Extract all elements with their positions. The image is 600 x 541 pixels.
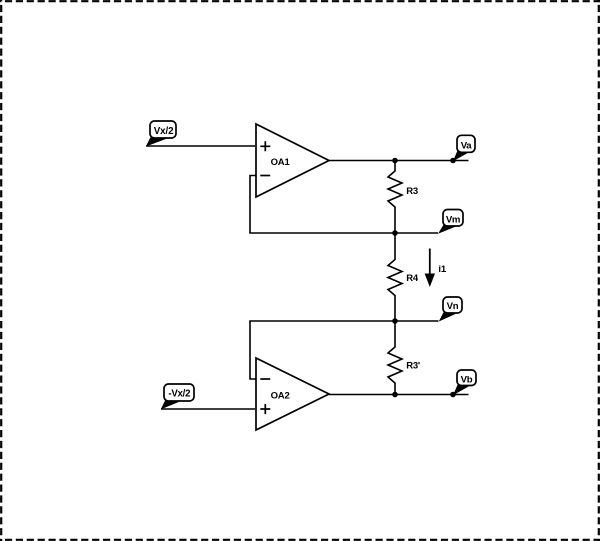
svg-text:Vn: Vn [447, 301, 459, 312]
svg-text:Vx/2: Vx/2 [154, 126, 174, 137]
svg-text:-Vx/2: -Vx/2 [168, 389, 190, 400]
svg-text:OA1: OA1 [271, 157, 291, 168]
svg-text:Vm: Vm [446, 214, 460, 225]
svg-text:OA2: OA2 [271, 391, 290, 402]
svg-text:i1: i1 [438, 264, 446, 275]
svg-text:R4: R4 [406, 273, 419, 284]
svg-text:Va: Va [461, 141, 473, 152]
svg-text:R3: R3 [406, 186, 418, 197]
svg-text:Vb: Vb [461, 374, 473, 385]
svg-text:R3': R3' [406, 361, 420, 372]
